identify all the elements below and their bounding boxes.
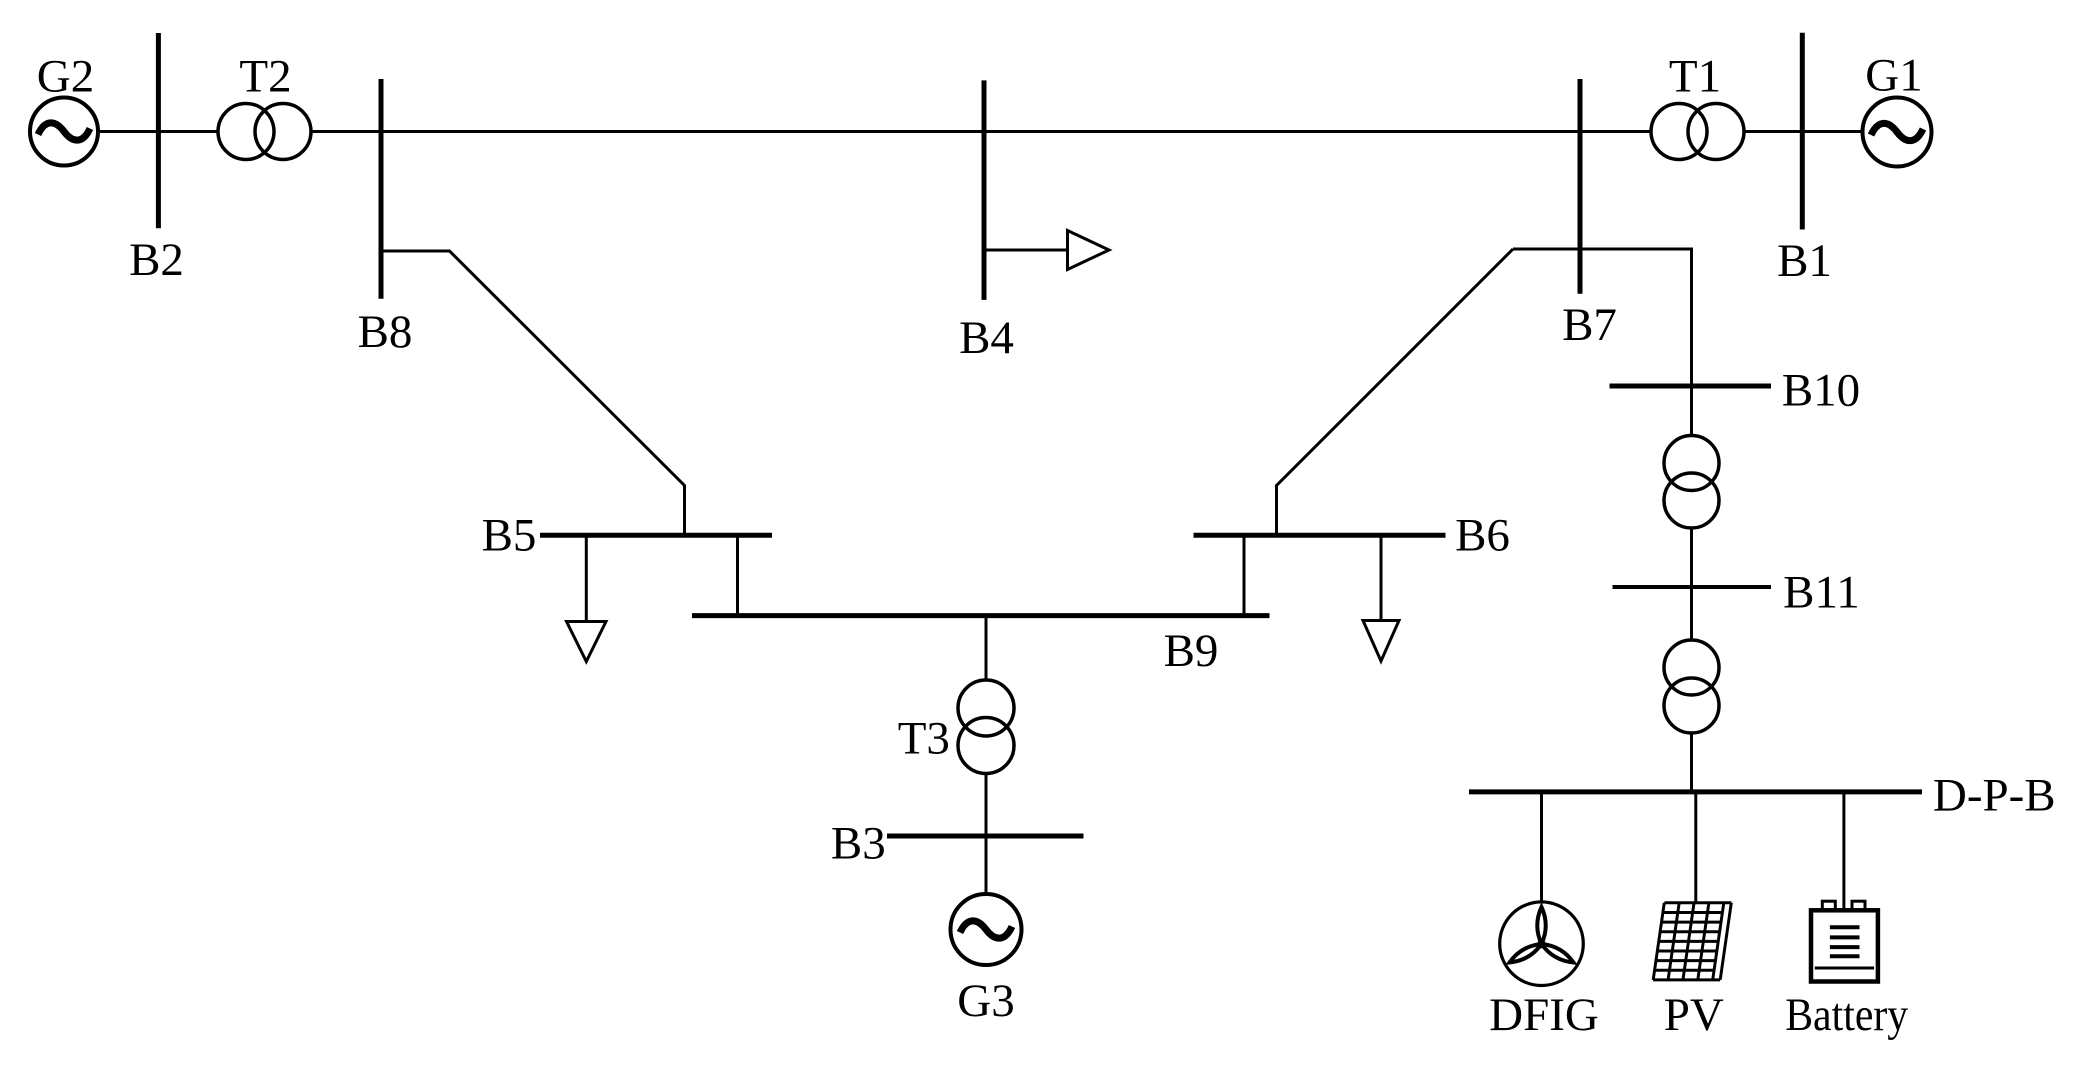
bus B7 [1578,79,1583,294]
PV panel [1653,903,1731,980]
svg-text:B4: B4 [959,312,1014,364]
DFIG wind turbine [1500,902,1584,986]
svg-text:B5: B5 [482,510,537,562]
svg-text:B2: B2 [129,234,184,286]
svg-text:B11: B11 [1783,567,1860,619]
svg-text:G2: G2 [37,51,94,103]
bus B3 [887,834,1084,839]
wire diagonal B7 to B6 [1277,249,1514,535]
transformer between B10 and B11 [1664,436,1719,529]
transformer T1 [1651,104,1744,160]
svg-text:Battery: Battery [1785,989,1908,1041]
bus B10 [1610,384,1772,389]
bus B8 [379,79,384,299]
load arrow at B6 [1363,535,1399,661]
svg-text:T1: T1 [1669,51,1721,103]
wire D-P-B to DFIG [1540,792,1543,902]
wire main transmission line [98,130,1863,133]
svg-text:DFIG: DFIG [1489,989,1599,1041]
bus B2 [156,33,161,228]
bus B6 [1194,533,1446,538]
wire B3 to G3 [985,836,988,895]
transformer between B11 and D-P-B [1664,640,1719,733]
bus B9 [692,613,1270,618]
load arrow at B4 [984,231,1109,270]
wire T3 to B3 [985,771,988,836]
svg-text:B9: B9 [1164,625,1219,677]
wire transformer to D-P-B [1690,732,1693,792]
bus D-P-B [1469,789,1922,794]
svg-text:T3: T3 [898,713,950,765]
wire D-P-B to PV [1694,792,1697,903]
svg-text:B3: B3 [831,818,886,870]
bus B5 [540,533,772,538]
generator G1 [1863,98,1932,167]
load arrow at B5 [567,535,607,662]
svg-text:D-P-B: D-P-B [1933,770,2056,822]
transformer T2 [218,104,311,160]
svg-text:PV: PV [1664,989,1724,1041]
wire B6 to B9 [1243,535,1246,616]
battery [1811,901,1878,981]
wire transformer to B11 [1690,527,1693,587]
wire B11 to transformer [1690,587,1693,641]
svg-text:B8: B8 [358,306,413,358]
svg-text:G3: G3 [957,975,1014,1027]
svg-text:T2: T2 [239,51,291,103]
svg-text:B6: B6 [1455,510,1510,562]
bus B11 [1613,585,1772,589]
wire B5 to B9 [736,535,739,616]
wire B9 to T3 [985,616,988,682]
svg-text:B10: B10 [1782,365,1860,417]
wire B7 bracket to B10 column [1513,249,1692,386]
bus B1 [1800,33,1805,230]
svg-text:G1: G1 [1865,50,1922,102]
wire D-P-B to Battery [1842,792,1845,910]
bus B4 [982,80,987,300]
wire B10 to transformer [1690,386,1693,437]
svg-text:B1: B1 [1777,235,1832,287]
transformer T3 [958,680,1014,774]
wire B8 stub and diagonal to B5 [381,251,685,535]
svg-text:B7: B7 [1562,299,1617,351]
generator G2 [30,98,98,166]
generator G3 [951,894,1022,965]
